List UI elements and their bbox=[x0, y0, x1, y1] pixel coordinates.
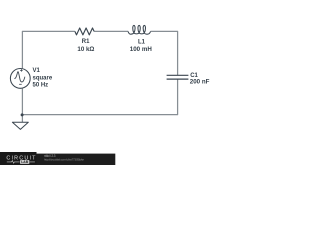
svg-text:200 nF: 200 nF bbox=[190, 79, 210, 86]
svg-text:50 Hz: 50 Hz bbox=[33, 83, 49, 89]
watermark logo block bbox=[0, 152, 37, 165]
svg-text:square: square bbox=[33, 75, 53, 81]
watermark LAB box bbox=[20, 160, 29, 164]
svg-text:LAB: LAB bbox=[21, 160, 28, 164]
resistor R1 labels bbox=[77, 39, 94, 53]
voltage source V1 circle bbox=[10, 69, 30, 89]
capacitor C1 plates bbox=[167, 75, 189, 79]
svg-text:V1: V1 bbox=[33, 68, 41, 74]
voltage source V1 wave glyph bbox=[14, 72, 25, 82]
wire from L1 to top-right corner and down to C1 bbox=[151, 31, 178, 75]
voltage source V1 labels bbox=[33, 68, 53, 88]
watermark wave line bbox=[7, 161, 35, 164]
svg-text:10 kΩ: 10 kΩ bbox=[77, 46, 94, 53]
voltage source V1 plus sign bbox=[20, 69, 23, 72]
svg-text:L1: L1 bbox=[138, 39, 146, 45]
svg-text:http://circuitlab.com/c/ka7730: http://circuitlab.com/c/ka77305fpke bbox=[44, 158, 84, 162]
wire top-left loop: left vertical + top horizontal to R1 bbox=[22, 31, 75, 68]
capacitor C1 labels bbox=[190, 73, 210, 86]
wire between R1 and L1 bbox=[94, 30, 128, 32]
node junction dot bbox=[21, 113, 24, 116]
watermark text block bbox=[37, 154, 116, 165]
svg-text:R1: R1 bbox=[82, 39, 90, 45]
inductor L1 labels bbox=[130, 39, 153, 53]
svg-text:100 mH: 100 mH bbox=[130, 46, 153, 53]
voltage source V1 minus sign bbox=[19, 83, 22, 85]
inductor L1 coil bbox=[128, 25, 151, 34]
ground symbol bbox=[12, 122, 28, 129]
wire from V1 bottom to junction and ground stub bbox=[21, 89, 23, 122]
wire from C1 down and bottom horizontal to junction bbox=[22, 79, 177, 114]
resistor R1 zigzag bbox=[75, 28, 94, 35]
